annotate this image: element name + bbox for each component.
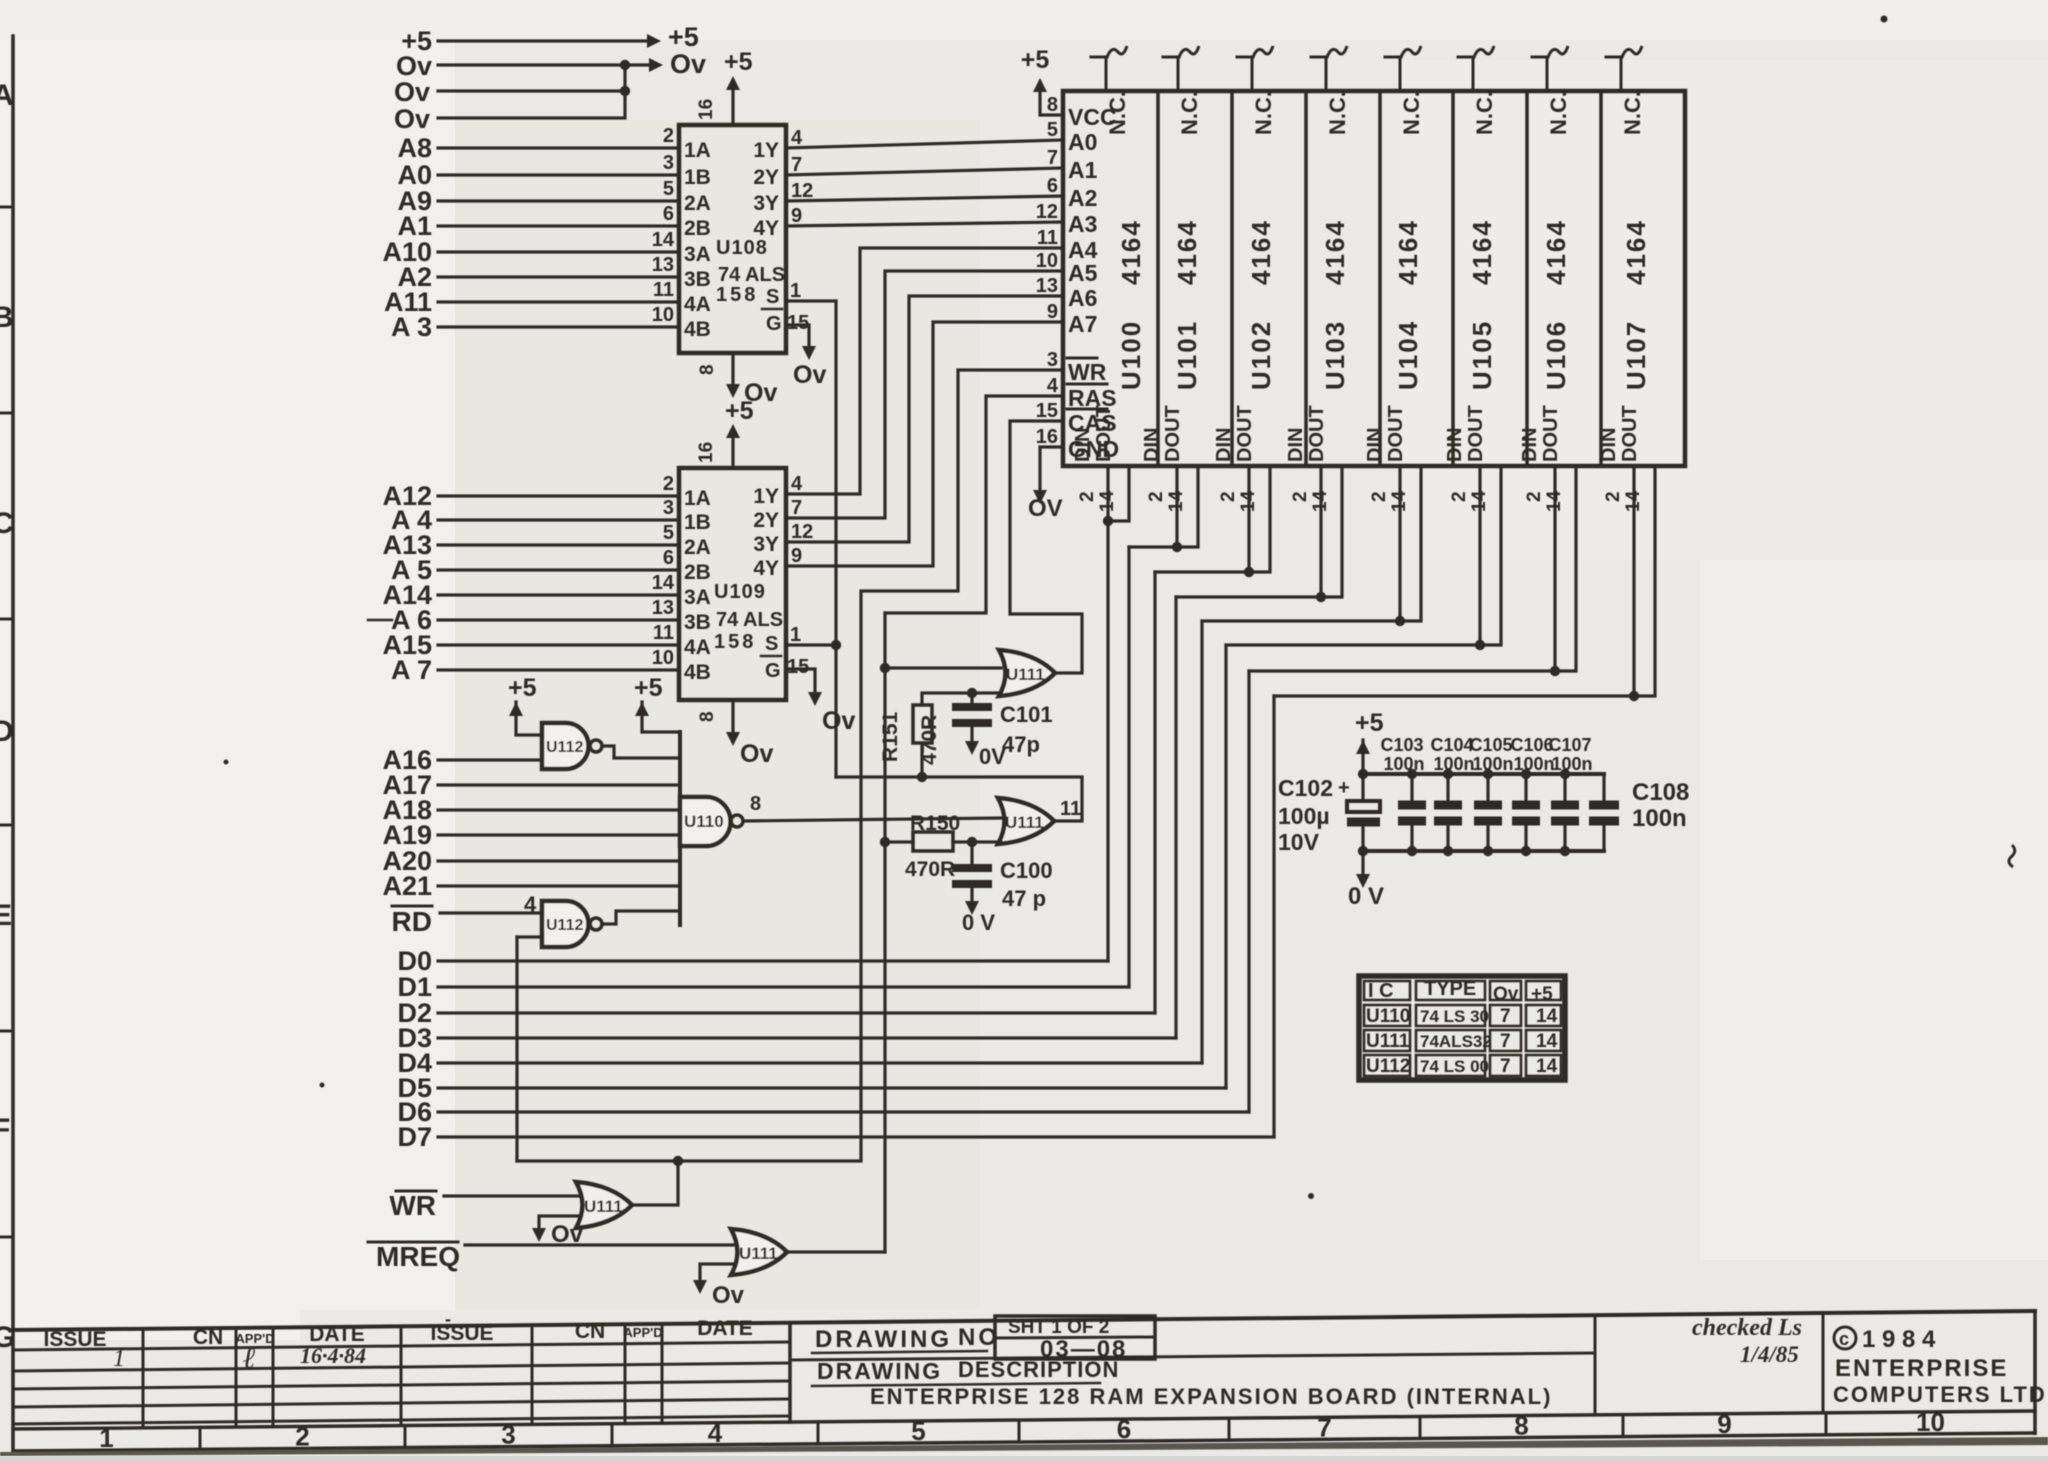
svg-text:4B: 4B bbox=[684, 661, 711, 684]
wire 0v feed 1 bbox=[438, 63, 650, 66]
wire D2 bbox=[438, 1011, 1155, 1014]
svg-text:6: 6 bbox=[663, 203, 674, 225]
svg-text:4164: 4164 bbox=[1541, 219, 1571, 285]
svg-text:U110: U110 bbox=[1366, 1006, 1410, 1027]
scan mark right edge bbox=[2009, 845, 2015, 867]
U109 pin 16 VCC stub to +5 bbox=[731, 436, 734, 468]
revision table line bbox=[13, 1381, 790, 1389]
svg-text:ENTERPRISE: ENTERPRISE bbox=[1835, 1355, 2008, 1382]
svg-text:470R: 470R bbox=[905, 858, 955, 881]
svg-text:Ov: Ov bbox=[712, 1282, 745, 1309]
DRAM U103 N.C. pin 1 no-connect symbol bbox=[1325, 57, 1328, 91]
divider before drawing-no section bbox=[788, 1323, 792, 1422]
SHT box bbox=[995, 1316, 1155, 1359]
wire DRAM U105 DIN stub bbox=[1478, 466, 1481, 645]
svg-text:0 V: 0 V bbox=[962, 910, 995, 935]
svg-text:4164: 4164 bbox=[1621, 219, 1651, 285]
svg-text:4: 4 bbox=[1047, 375, 1059, 397]
svg-text:DRAWING: DRAWING bbox=[817, 1358, 942, 1384]
gate U112b NAND (RD inverter) bbox=[542, 901, 589, 947]
zone divider bbox=[2034, 1411, 2037, 1433]
svg-text:C100: C100 bbox=[1000, 858, 1053, 883]
sheet left border line bbox=[11, 36, 15, 1448]
wire U112b output to U110 bbox=[602, 911, 680, 924]
svg-text:+5: +5 bbox=[668, 22, 699, 52]
capacitor C101 47p bbox=[952, 703, 992, 711]
svg-text:0 V: 0 V bbox=[1348, 883, 1384, 910]
wire DRAM U106 data down to D6 bbox=[1247, 671, 1250, 1112]
svg-text:ISSUE: ISSUE bbox=[430, 1322, 493, 1345]
svg-text:DOUT: DOUT bbox=[1234, 405, 1256, 462]
svg-text:U112: U112 bbox=[546, 739, 583, 756]
scan speck mid bbox=[224, 760, 229, 765]
svg-text:12: 12 bbox=[791, 180, 813, 202]
svg-text:ISSUE: ISSUE bbox=[43, 1328, 106, 1351]
svg-text:R150: R150 bbox=[910, 812, 960, 835]
capacitor C108 100n bbox=[1589, 801, 1619, 810]
capacitor C100 47p bbox=[952, 864, 992, 872]
right border of title block bbox=[2033, 1311, 2037, 1433]
bottom dark band bbox=[0, 1437, 2048, 1456]
DRAM U104 N.C. pin 1 no-connect symbol bbox=[1399, 57, 1402, 91]
svg-text:A: A bbox=[0, 79, 14, 112]
svg-text:+5: +5 bbox=[725, 397, 754, 425]
IC U109 74ALS158 multiplexer body bbox=[679, 468, 786, 700]
revision table divider bbox=[142, 1329, 145, 1428]
svg-text:7: 7 bbox=[1500, 1056, 1511, 1077]
svg-text:7: 7 bbox=[791, 154, 802, 176]
svg-text:11: 11 bbox=[1060, 798, 1081, 820]
svg-text:5: 5 bbox=[911, 1416, 925, 1446]
node DRAM U107 data junction bbox=[1629, 691, 1639, 701]
wire C100 to 0V bbox=[970, 888, 973, 903]
wire U109 1Y up to DRAM address bus bbox=[786, 248, 1063, 494]
svg-text:15: 15 bbox=[787, 656, 809, 678]
svg-text:1/4/85: 1/4/85 bbox=[1740, 1342, 1799, 1367]
wire DRAM U101 data down to D1 bbox=[1127, 547, 1130, 987]
scan speck top right bbox=[1881, 16, 1888, 23]
border tick bbox=[0, 618, 13, 621]
svg-text:3B: 3B bbox=[684, 268, 711, 291]
node WR net junction at U111c output bbox=[673, 1156, 683, 1166]
svg-text:A0: A0 bbox=[1068, 129, 1097, 155]
svg-text:4164: 4164 bbox=[1467, 219, 1497, 285]
svg-text:3: 3 bbox=[663, 152, 674, 174]
wire U108 pin1 select bbox=[786, 299, 836, 302]
svg-text:4164: 4164 bbox=[1172, 219, 1202, 285]
wire D6 bbox=[438, 1110, 1249, 1113]
svg-text:D: D bbox=[0, 715, 14, 748]
svg-text:3: 3 bbox=[501, 1420, 515, 1450]
svg-text:SHT 1 OF 2: SHT 1 OF 2 bbox=[1008, 1317, 1109, 1338]
revision table line bbox=[13, 1363, 790, 1371]
wire MREQ OR output to RAS vertical bbox=[787, 1250, 885, 1253]
checked cell divider bbox=[1594, 1315, 1597, 1415]
svg-text:13: 13 bbox=[652, 254, 674, 276]
svg-text:2: 2 bbox=[1449, 491, 1470, 502]
svg-text:8: 8 bbox=[1047, 94, 1058, 116]
svg-text:Ov: Ov bbox=[822, 707, 855, 735]
DRAM U106 N.C. pin 1 no-connect symbol bbox=[1546, 57, 1549, 91]
svg-text:11: 11 bbox=[653, 279, 674, 301]
svg-text:14: 14 bbox=[652, 229, 675, 251]
svg-text:U107: U107 bbox=[1621, 320, 1651, 390]
svg-text:N.C.: N.C. bbox=[1399, 91, 1424, 135]
svg-text:7: 7 bbox=[1500, 1006, 1511, 1027]
wire D4 bbox=[438, 1061, 1202, 1064]
svg-text:U108: U108 bbox=[716, 237, 768, 259]
wire DRAM U104 DOUT stub joining DIN bbox=[1202, 466, 1421, 621]
wire U110 output to U111b upper input bbox=[743, 818, 1001, 821]
wire D1 bbox=[438, 985, 1129, 988]
svg-text:74 ALS: 74 ALS bbox=[716, 609, 783, 631]
svg-text:U112: U112 bbox=[1366, 1056, 1410, 1077]
U109 pin 8 GND stub to 0v bbox=[731, 700, 734, 734]
svg-text:DOUT: DOUT bbox=[1465, 405, 1487, 462]
svg-text:2: 2 bbox=[1524, 491, 1545, 502]
svg-text:1: 1 bbox=[790, 280, 801, 302]
svg-text:N.C.: N.C. bbox=[1251, 91, 1276, 135]
wire U108 pin15 to 0v bbox=[786, 325, 809, 348]
svg-text:CN: CN bbox=[193, 1326, 223, 1349]
svg-text:2: 2 bbox=[1369, 491, 1390, 502]
svg-text:9: 9 bbox=[1717, 1409, 1731, 1439]
DRAM U102 N.C. pin 1 no-connect symbol bbox=[1251, 57, 1254, 91]
svg-text:DATE: DATE bbox=[697, 1317, 753, 1340]
capacitor C106 100n bbox=[1512, 801, 1540, 810]
copyright cell divider bbox=[1822, 1313, 1825, 1413]
wire WR net: DRAM pin3 down-left to gate region bbox=[517, 370, 1063, 1161]
DRAM column separator 2 bbox=[1230, 91, 1234, 466]
svg-text:S: S bbox=[765, 633, 778, 655]
svg-text:1 9 8 4: 1 9 8 4 bbox=[1862, 1326, 1936, 1353]
svg-text:3A: 3A bbox=[684, 586, 711, 609]
svg-text:DIN: DIN bbox=[1598, 428, 1620, 462]
wire R150 right lead bbox=[953, 840, 1001, 843]
svg-text:10: 10 bbox=[652, 304, 674, 326]
node DRAM U104 data junction bbox=[1395, 616, 1405, 626]
DRAM column separator 7 bbox=[1599, 91, 1603, 466]
svg-text:10V: 10V bbox=[1278, 829, 1320, 855]
wire DRAM U107 DIN stub bbox=[1632, 466, 1635, 696]
zone divider bbox=[1419, 1416, 1422, 1438]
svg-text:DIN: DIN bbox=[1519, 428, 1541, 462]
svg-text:5: 5 bbox=[663, 522, 674, 544]
node RAS net tap to U111a upper input bbox=[880, 663, 890, 673]
wire U109 2Y up to DRAM address bus bbox=[786, 271, 1063, 518]
svg-text:4Y: 4Y bbox=[753, 557, 779, 580]
DRAM column separator 4 bbox=[1378, 91, 1382, 466]
node RAS net tap to R150 bbox=[880, 837, 890, 847]
svg-text:15: 15 bbox=[787, 312, 809, 334]
wire 0v feed 3 joining vertical bbox=[438, 65, 625, 118]
wire RAS net: DRAM pin4 down to x885 vertical bbox=[885, 396, 1063, 613]
svg-text:3: 3 bbox=[1047, 349, 1058, 371]
svg-text:158: 158 bbox=[716, 284, 758, 306]
svg-text:4: 4 bbox=[791, 127, 803, 149]
gate U111c OR (WR gate) bbox=[576, 1182, 632, 1228]
svg-text:3: 3 bbox=[663, 497, 674, 519]
svg-text:1Y: 1Y bbox=[753, 485, 779, 508]
svg-text:100µ: 100µ bbox=[1278, 803, 1330, 829]
capacitor C103 100n bbox=[1398, 801, 1426, 810]
DRAM U107 N.C. pin 1 no-connect symbol bbox=[1620, 57, 1623, 91]
wire select net horizontal to U111b output bbox=[836, 777, 1082, 821]
svg-text:DOUT: DOUT bbox=[1162, 405, 1184, 462]
stray dash before A6 bbox=[368, 619, 392, 622]
svg-text:DRAWING: DRAWING bbox=[815, 1326, 952, 1353]
wire U108 4Y to DRAM address bus bbox=[786, 222, 1063, 226]
border tick bbox=[0, 1236, 13, 1239]
svg-text:U111: U111 bbox=[739, 1244, 778, 1263]
svg-text:9: 9 bbox=[791, 205, 802, 227]
gate U111a OR (drives CAS) bbox=[999, 650, 1055, 696]
wire bypass rail to 0V bbox=[1361, 851, 1364, 876]
svg-text:16: 16 bbox=[696, 99, 717, 120]
svg-text:8: 8 bbox=[750, 793, 761, 815]
zone divider bbox=[12, 1429, 15, 1451]
svg-text:C101: C101 bbox=[1000, 702, 1053, 727]
svg-text:WR: WR bbox=[389, 1190, 436, 1221]
wire U109 pin15 to 0v bbox=[786, 669, 815, 694]
svg-text:4164: 4164 bbox=[1320, 219, 1350, 285]
DRAM column separator 6 bbox=[1525, 91, 1529, 466]
node DRAM U105 data junction bbox=[1475, 640, 1485, 650]
zone divider bbox=[1622, 1415, 1625, 1437]
svg-text:A7: A7 bbox=[1068, 311, 1097, 337]
wire R150 left lead bbox=[885, 840, 913, 843]
svg-text:DOUT: DOUT bbox=[1385, 405, 1407, 462]
svg-text:DOUT: DOUT bbox=[1619, 405, 1641, 462]
svg-text:A3: A3 bbox=[1068, 211, 1097, 237]
revision table divider bbox=[235, 1328, 238, 1427]
zone divider bbox=[611, 1424, 614, 1446]
DRAM GND rail to 0V bbox=[1040, 447, 1063, 492]
svg-text:9: 9 bbox=[1047, 301, 1058, 323]
svg-text:2: 2 bbox=[295, 1421, 309, 1451]
svg-text:N.C.: N.C. bbox=[1177, 91, 1202, 135]
wire DRAM U101 DOUT stub joining DIN bbox=[1129, 466, 1198, 547]
svg-text:3Y: 3Y bbox=[753, 533, 779, 556]
node +5 rail taps bbox=[1358, 769, 1368, 779]
svg-text:4Y: 4Y bbox=[753, 217, 779, 240]
border tick bbox=[0, 412, 13, 415]
svg-text:DESCRIPTION: DESCRIPTION bbox=[958, 1357, 1119, 1382]
svg-text:U111: U111 bbox=[1006, 665, 1045, 684]
svg-text:A 7: A 7 bbox=[391, 655, 432, 685]
svg-text:14: 14 bbox=[1536, 1006, 1558, 1027]
svg-text:1: 1 bbox=[113, 1346, 125, 1372]
svg-text:74ALS32: 74ALS32 bbox=[1420, 1032, 1492, 1051]
svg-text:2Y: 2Y bbox=[753, 166, 779, 189]
svg-text:4A: 4A bbox=[684, 293, 711, 316]
DRAM U105 N.C. pin 1 no-connect symbol bbox=[1472, 57, 1475, 91]
svg-text:2A: 2A bbox=[684, 192, 711, 215]
svg-text:1Y: 1Y bbox=[753, 139, 779, 162]
svg-text:+5: +5 bbox=[1531, 984, 1553, 1005]
svg-text:100n: 100n bbox=[1632, 805, 1687, 832]
svg-text:2: 2 bbox=[1146, 491, 1167, 502]
svg-text:Ov: Ov bbox=[394, 104, 430, 134]
node R150/C100/U111b lower input junction bbox=[967, 837, 977, 847]
svg-text:10: 10 bbox=[1916, 1407, 1945, 1437]
node select net R151 tap bbox=[917, 772, 927, 782]
svg-text:CN: CN bbox=[575, 1320, 605, 1343]
svg-text:ENTERPRISE 128 RAM EXPANSIO: ENTERPRISE 128 RAM EXPANSION BOARD (INTE… bbox=[870, 1384, 1552, 1409]
svg-text:E: E bbox=[0, 899, 12, 932]
wire DRAM U106 DOUT stub joining DIN bbox=[1249, 466, 1576, 671]
svg-text:100n: 100n bbox=[1513, 754, 1554, 774]
revision table divider bbox=[624, 1324, 627, 1423]
wire DRAM U105 DOUT stub joining DIN bbox=[1226, 466, 1501, 645]
wire DRAM U103 data down to D3 bbox=[1174, 597, 1177, 1038]
svg-text:12: 12 bbox=[791, 521, 813, 543]
gate U111d OR (MREQ gate) bbox=[731, 1229, 787, 1275]
wire D5 bbox=[438, 1086, 1226, 1089]
svg-text:DIN: DIN bbox=[1141, 428, 1163, 462]
svg-text:8: 8 bbox=[697, 711, 718, 722]
svg-text:APP'D: APP'D bbox=[623, 1325, 662, 1340]
svg-text:2: 2 bbox=[663, 473, 674, 495]
svg-text:5: 5 bbox=[663, 178, 674, 200]
wire DRAM U102 data down to D2 bbox=[1153, 572, 1156, 1013]
svg-text:A1: A1 bbox=[1068, 157, 1098, 183]
border tick bbox=[0, 1030, 13, 1033]
svg-text:8: 8 bbox=[1514, 1411, 1528, 1441]
wire U111c lower input to 0v bbox=[539, 1216, 578, 1230]
title block bottom border (zone strip top) bbox=[13, 1411, 2035, 1429]
svg-text:C104: C104 bbox=[1430, 735, 1473, 755]
svg-text:4: 4 bbox=[791, 473, 803, 495]
revision table line bbox=[13, 1399, 790, 1407]
svg-text:2: 2 bbox=[663, 125, 674, 147]
svg-text:16·4·84: 16·4·84 bbox=[300, 1343, 366, 1368]
border tick bbox=[0, 824, 13, 827]
wire U109 pin1 select join bbox=[786, 643, 836, 646]
svg-text:I C: I C bbox=[1368, 980, 1394, 1002]
node DRAM U101 data junction bbox=[1172, 542, 1182, 552]
svg-text:+5: +5 bbox=[1355, 709, 1384, 737]
svg-text:A 3: A 3 bbox=[391, 312, 432, 342]
revision table line bbox=[13, 1342, 790, 1350]
svg-text:DIN: DIN bbox=[1364, 428, 1386, 462]
revision table line bbox=[13, 1416, 790, 1424]
DRAM array outer box U100-U107 bbox=[1063, 91, 1685, 466]
svg-text:1: 1 bbox=[99, 1423, 113, 1453]
svg-text:Ov: Ov bbox=[1493, 984, 1519, 1005]
svg-text:WR: WR bbox=[1068, 359, 1107, 385]
capacitor C107 100n bbox=[1551, 801, 1579, 810]
svg-text:checked Ls: checked Ls bbox=[1692, 1315, 1802, 1341]
svg-text:1B: 1B bbox=[684, 166, 711, 189]
gate U110 74LS30 8-input NAND bbox=[680, 797, 731, 846]
svg-text:16: 16 bbox=[1036, 426, 1058, 448]
svg-text:4B: 4B bbox=[684, 318, 711, 341]
svg-text:U101: U101 bbox=[1172, 320, 1202, 390]
svg-text:+5: +5 bbox=[634, 674, 663, 702]
svg-text:74 LS 30: 74 LS 30 bbox=[1420, 1007, 1489, 1026]
wire DRAM U105 data down to D5 bbox=[1224, 645, 1227, 1088]
svg-text:13: 13 bbox=[652, 597, 674, 619]
svg-text:RD: RD bbox=[392, 906, 432, 937]
svg-text:OV: OV bbox=[1028, 495, 1063, 522]
svg-text:158: 158 bbox=[714, 631, 756, 653]
svg-text:1B: 1B bbox=[684, 511, 711, 534]
wire 0v feed 2 bbox=[438, 89, 625, 92]
svg-text:C102: C102 bbox=[1278, 775, 1333, 801]
svg-text:15: 15 bbox=[1036, 400, 1058, 422]
svg-text:U106: U106 bbox=[1541, 320, 1571, 390]
svg-text:4164: 4164 bbox=[1246, 219, 1276, 285]
svg-text:8: 8 bbox=[697, 364, 718, 375]
svg-text:14: 14 bbox=[1536, 1031, 1558, 1052]
DRAM column separator 3 bbox=[1304, 91, 1308, 466]
svg-text:D7: D7 bbox=[397, 1122, 432, 1152]
svg-text:100n: 100n bbox=[1472, 754, 1513, 774]
svg-text:U102: U102 bbox=[1246, 320, 1276, 390]
capacitor C102 100u 10V electrolytic bbox=[1347, 801, 1380, 812]
svg-text:100n: 100n bbox=[1551, 754, 1592, 774]
svg-text:12: 12 bbox=[1036, 201, 1058, 223]
wire U109 4Y up to DRAM address bus bbox=[786, 322, 1063, 566]
wire DRAM U103 DOUT stub joining DIN bbox=[1176, 466, 1342, 597]
wire DRAM U101 DIN stub bbox=[1175, 466, 1178, 547]
svg-text:C107: C107 bbox=[1548, 735, 1591, 755]
U108 pin 16 VCC stub to +5 bbox=[731, 88, 734, 125]
svg-text:100n: 100n bbox=[1433, 754, 1474, 774]
wire WR net branch up to U112b lower input bbox=[515, 937, 518, 1161]
svg-text:4A: 4A bbox=[684, 636, 711, 659]
svg-text:47 p: 47 p bbox=[1002, 886, 1046, 911]
svg-text:14: 14 bbox=[1536, 1056, 1558, 1077]
svg-text:-: - bbox=[445, 1309, 451, 1329]
svg-text:A5: A5 bbox=[1068, 260, 1098, 286]
gate U111b OR (select delay) bbox=[998, 798, 1054, 844]
svg-text:Ov: Ov bbox=[740, 740, 773, 768]
svg-text:DIN: DIN bbox=[1072, 428, 1094, 462]
wire U111c output up to WR net bbox=[676, 1161, 679, 1204]
svg-text:A2: A2 bbox=[1068, 185, 1097, 211]
node DRAM U106 data junction bbox=[1550, 666, 1560, 676]
zone strip bottom bbox=[13, 1433, 2035, 1451]
svg-text:Ov: Ov bbox=[670, 49, 706, 79]
wire DRAM U100 DIN stub bbox=[1106, 466, 1109, 521]
title block top border bbox=[13, 1311, 2035, 1330]
svg-text:+5: +5 bbox=[508, 674, 537, 702]
wire D7 bbox=[438, 1135, 1274, 1138]
svg-text:A21: A21 bbox=[382, 871, 432, 901]
wire DRAM U104 data down to D4 bbox=[1200, 621, 1203, 1063]
svg-text:7: 7 bbox=[791, 497, 802, 519]
capacitor C104 100n bbox=[1434, 801, 1462, 810]
wire DRAM U106 DIN stub bbox=[1553, 466, 1556, 671]
zone divider bbox=[199, 1427, 202, 1449]
svg-text:N.C.: N.C. bbox=[1325, 91, 1350, 135]
svg-text:U111: U111 bbox=[584, 1197, 623, 1216]
svg-text:10: 10 bbox=[1036, 250, 1058, 272]
svg-text:N.C.: N.C. bbox=[1620, 91, 1645, 135]
svg-text:6: 6 bbox=[1047, 175, 1058, 197]
svg-text:4164: 4164 bbox=[1393, 219, 1423, 285]
revision table divider bbox=[661, 1324, 664, 1423]
node select join U109 pin1 bbox=[831, 640, 841, 650]
wire U111a upper input bbox=[885, 666, 1001, 669]
zone divider bbox=[817, 1422, 820, 1444]
DRAM U100 N.C. pin 1 no-connect symbol bbox=[1105, 57, 1108, 91]
svg-text:C103: C103 bbox=[1380, 735, 1423, 755]
svg-text:3A: 3A bbox=[684, 243, 711, 266]
zone divider bbox=[1018, 1420, 1021, 1442]
